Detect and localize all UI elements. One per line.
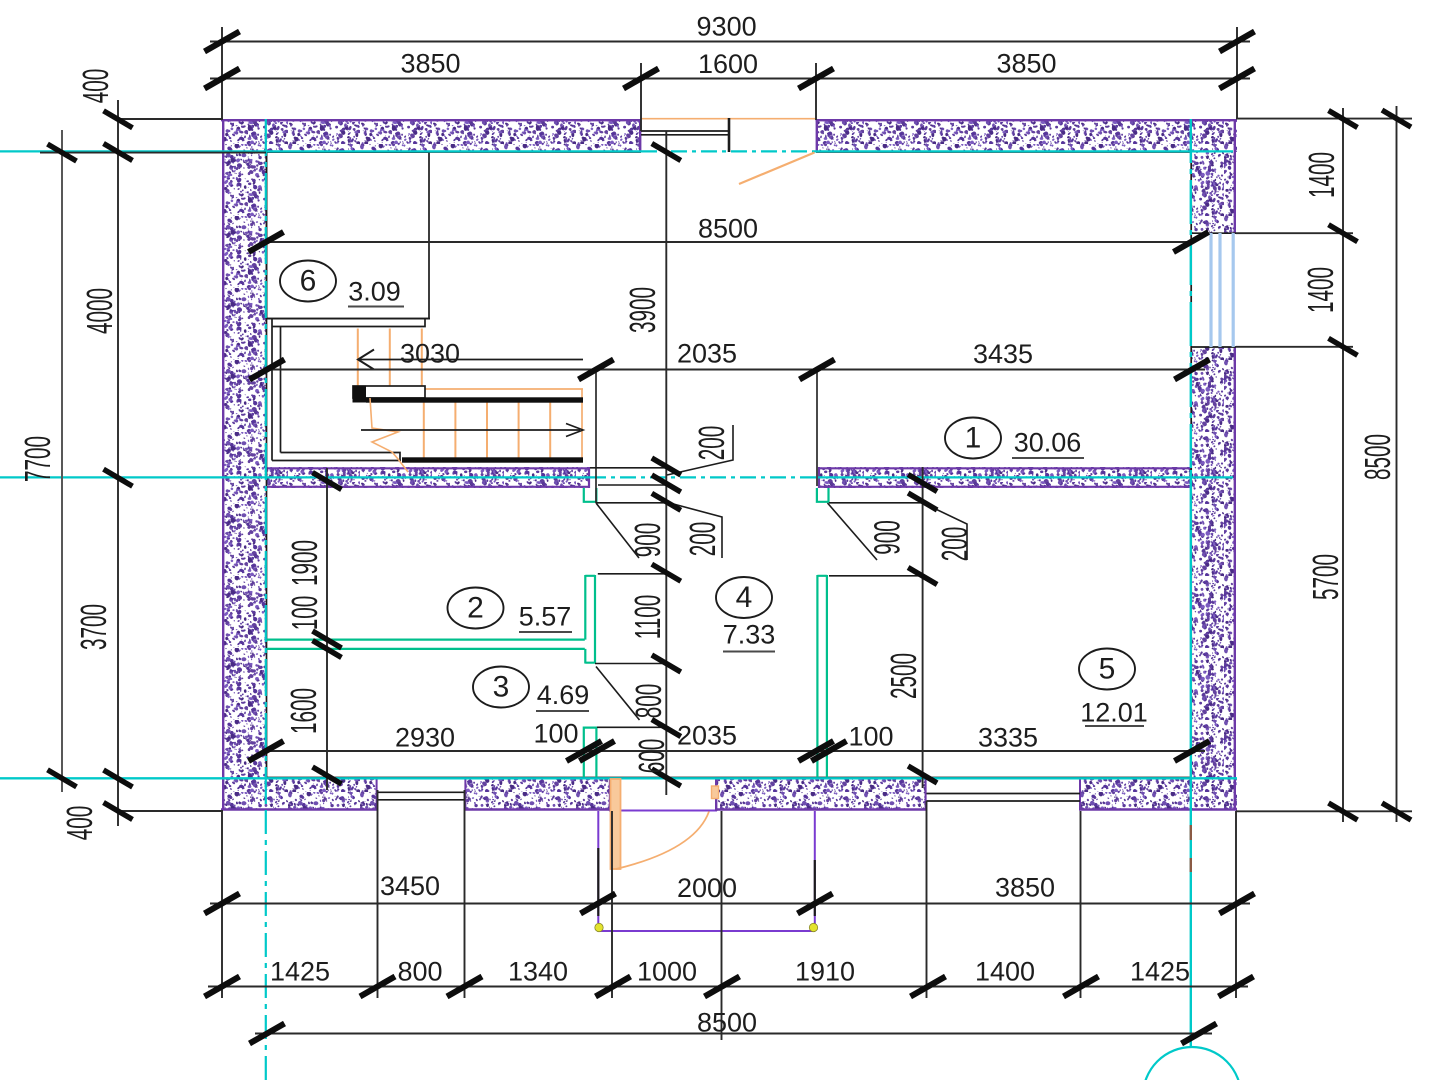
tick 267,1033.5	[250, 1024, 285, 1044]
tick 266,751	[249, 741, 284, 761]
stair left rail outer	[271, 319, 273, 461]
dim line 3900 chain vertical	[665, 131, 667, 795]
dim line 3030-2035-3435	[267, 369, 1205, 371]
stair newel post	[353, 386, 367, 403]
stair walk arrow head	[566, 424, 583, 437]
stair upper tread 3	[421, 329, 423, 398]
interior wall right bottom edge	[818, 486, 1191, 488]
tick v 666.3,466.5	[652, 458, 681, 475]
tick v 1343,346.8	[1329, 338, 1358, 355]
room 2 area underline	[519, 631, 572, 633]
svg-text:6: 6	[300, 265, 317, 298]
stair upper tread 1	[357, 329, 359, 398]
top door jamb cap left	[639, 119, 641, 152]
tick v 118,811	[104, 803, 133, 820]
axis A horizontal top solid left	[0, 150, 641, 152]
stair bottom rail outer	[272, 460, 401, 462]
svg-text:3850: 3850	[995, 873, 1055, 903]
tick 816,78.5	[799, 69, 834, 89]
extension porch right dark	[814, 860, 816, 916]
door annotation line jamb right	[829, 502, 923, 504]
svg-text:2500: 2500	[884, 653, 924, 699]
stair up arrow head	[358, 350, 374, 370]
tick v 666.3,728	[652, 720, 681, 737]
partition room2/3 divider top line	[267, 638, 585, 640]
bottom window2 glazing 1	[927, 793, 1081, 795]
right window glazing 1	[1209, 233, 1212, 347]
tick 377.5,986.5	[360, 977, 395, 997]
tick 1192,369.5	[1175, 360, 1210, 380]
tick v 118,778.5	[104, 770, 133, 787]
tick v 1396.5,811.5	[1382, 803, 1411, 820]
svg-text:3: 3	[493, 671, 510, 704]
tick v 118,152	[104, 144, 133, 161]
svg-text:4.69: 4.69	[537, 680, 590, 710]
dim line 1900-100-1600 vertical	[326, 468, 328, 790]
tick 222,903.5	[205, 894, 240, 914]
extension window2 right	[1080, 811, 1082, 998]
room 6 ellipse	[280, 261, 336, 302]
extension porch left dark	[597, 848, 599, 916]
svg-text:3.09: 3.09	[348, 277, 401, 307]
svg-text:800: 800	[397, 957, 442, 987]
tick v 1343,811.5	[1329, 803, 1358, 820]
extension 1100 line	[595, 663, 666, 665]
extension window2 left	[926, 801, 928, 998]
svg-text:1: 1	[965, 422, 982, 455]
tick 1192,751	[1175, 741, 1210, 761]
tick 1081,986.5	[1064, 977, 1099, 997]
outer wall top-right segment	[816, 119, 1237, 152]
tick v 666.3,663.5	[652, 655, 681, 672]
svg-text:1000: 1000	[637, 957, 697, 987]
dim line 400-4000-3700-400 vertical	[117, 100, 119, 826]
tick 222,986.5	[205, 977, 240, 997]
svg-text:4000: 4000	[80, 288, 120, 334]
wall outer edge bottom seg2	[465, 808, 610, 810]
svg-text:900: 900	[868, 520, 908, 555]
stair walk line	[361, 429, 580, 431]
connector right window bottom	[1236, 346, 1353, 348]
connector right window top	[1236, 232, 1353, 234]
svg-text:200: 200	[935, 527, 975, 562]
extension top-right corner	[1236, 27, 1238, 119]
tick v 666.3,572.7	[652, 564, 681, 581]
stair lower tread 5	[549, 403, 551, 458]
stair thick edge upper	[366, 397, 583, 402]
extension window1 right	[464, 790, 466, 998]
svg-text:8500: 8500	[698, 214, 758, 244]
wall outer edge bottom seg4	[1079, 808, 1237, 810]
tick 464.5,986.5	[447, 977, 482, 997]
outer wall bottom segment 4	[1079, 777, 1237, 810]
wall outer edge top left part	[221, 119, 642, 121]
top door leaf	[739, 153, 815, 185]
tick 267,369.5	[250, 360, 285, 380]
room 6 enclosure	[267, 152, 430, 319]
tick 816,751	[799, 741, 834, 761]
room 3 ellipse	[473, 667, 529, 708]
svg-text:3335: 3335	[978, 723, 1038, 753]
svg-text:2035: 2035	[677, 339, 737, 369]
svg-text:5: 5	[1099, 653, 1116, 686]
leader 200 lower-left	[666, 502, 722, 558]
dim line 8500 right vertical	[1396, 106, 1398, 822]
door leaf room3	[596, 667, 640, 721]
door leaf room5	[828, 503, 878, 560]
stair top rail inner	[272, 319, 425, 327]
stair lower tread 4	[518, 403, 520, 458]
entrance jamb cap right	[715, 777, 717, 811]
interior wall left bottom edge	[267, 486, 590, 488]
room 1 ellipse	[945, 418, 1001, 459]
dim line 8500 interior	[266, 241, 1191, 243]
top window mullion post	[728, 118, 731, 152]
dim line 3450-2000-3850	[210, 903, 1250, 905]
extension 800 line	[597, 726, 666, 728]
svg-text:5700: 5700	[1306, 554, 1346, 600]
svg-text:30.06: 30.06	[1014, 428, 1082, 458]
svg-text:100: 100	[533, 719, 578, 749]
room 4 ellipse	[716, 577, 772, 618]
tick v 327,481	[313, 473, 342, 490]
svg-text:200: 200	[683, 522, 723, 557]
svg-text:1400: 1400	[1301, 267, 1341, 313]
svg-text:2000: 2000	[677, 873, 737, 903]
axis 2 hidden dash 1	[1190, 825, 1192, 840]
inner face right wall	[1190, 152, 1192, 778]
svg-text:8500: 8500	[1358, 434, 1398, 480]
stair upper tread 2	[389, 329, 391, 398]
top window glazing line 1	[641, 130, 730, 132]
svg-text:3850: 3850	[400, 49, 460, 79]
leader 200 right	[923, 503, 967, 560]
extension top door left	[640, 63, 642, 131]
door annotation line wall bottom left	[598, 484, 666, 486]
tick v 62,152.6	[48, 144, 77, 161]
wall outer edge left	[222, 119, 224, 810]
dim line 2500 vertical	[922, 467, 924, 788]
tick 222,41.5	[205, 32, 240, 52]
stair lower tread 1	[423, 403, 425, 458]
axis C horizontal bottom	[0, 777, 1237, 779]
tick v 1343,119	[1329, 111, 1358, 128]
room 3 area underline	[536, 710, 589, 712]
extension room1 left	[595, 370, 597, 504]
tick 598,903.5	[581, 894, 616, 914]
inner face bottom wall	[267, 777, 1192, 779]
dim line 2930-2035-3335	[266, 750, 1205, 752]
tick v 666.3,501.8	[652, 493, 681, 510]
svg-text:3030: 3030	[400, 339, 460, 369]
tick 641,78.5	[624, 69, 659, 89]
room 4 area underline	[723, 651, 775, 653]
stair left rail inner	[280, 327, 282, 453]
tick 817,369.5	[800, 360, 835, 380]
wall outer edge bottom seg3	[717, 808, 927, 810]
svg-text:3700: 3700	[74, 604, 114, 650]
tick 222,78.5	[205, 69, 240, 89]
top door jamb cap right	[816, 119, 818, 152]
stair break line	[370, 398, 408, 472]
outer wall bottom segment 3	[717, 777, 927, 810]
stair thick edge lower	[402, 457, 583, 462]
svg-text:1400: 1400	[975, 957, 1035, 987]
room 1 area underline	[1012, 457, 1084, 459]
tick 584,751	[567, 741, 602, 761]
tick v 922.6,501.5	[908, 493, 937, 510]
svg-text:900: 900	[628, 523, 668, 558]
bottom window2 glazing 2	[927, 800, 1081, 802]
axis A horizontal top solid right	[816, 150, 1233, 152]
axis 2 vertical right lower	[1190, 470, 1192, 1046]
svg-text:600: 600	[632, 739, 672, 774]
dim line bottom chain	[208, 986, 1248, 988]
porch outline left	[597, 811, 599, 923]
porch outline bottom	[599, 930, 815, 932]
svg-text:3850: 3850	[996, 49, 1056, 79]
dim line 1400-1400-5700 vertical	[1342, 108, 1344, 822]
svg-text:200: 200	[692, 426, 732, 461]
extension bottom-right corner	[1235, 811, 1237, 998]
door leaf room2	[596, 503, 639, 558]
interior bearing wall right segment	[818, 467, 1191, 488]
tick v 666.3,483.5	[652, 475, 681, 492]
stair flight border right	[581, 389, 583, 462]
interior bearing wall left segment	[267, 467, 590, 488]
partition right vertical segment	[817, 575, 827, 777]
interior wall right end cap	[818, 467, 820, 488]
wall outer edge right above window	[1234, 119, 1236, 233]
tick 597,751	[580, 741, 615, 761]
tick 266,242	[249, 232, 284, 252]
room 5 ellipse	[1079, 649, 1135, 690]
partition left vertical segment	[585, 575, 595, 664]
door annotation line opening end left	[598, 573, 666, 575]
axis 1 vertical left	[265, 119, 267, 810]
inner face top wall left part	[267, 151, 642, 153]
stair landing plate	[353, 386, 425, 398]
axis B horizontal middle dashed	[590, 476, 818, 478]
outer wall bottom segment 1	[222, 777, 378, 810]
svg-text:1900: 1900	[285, 540, 325, 586]
svg-text:3450: 3450	[380, 871, 440, 901]
porch corner dot left	[595, 923, 603, 931]
tick v 1396.5,118.6	[1382, 110, 1411, 127]
stair flight border top	[425, 388, 583, 390]
extension window1 left	[377, 790, 379, 998]
tick 829,751	[812, 741, 847, 761]
svg-text:7700: 7700	[18, 436, 58, 482]
dim line 8500 bottom	[255, 1033, 1212, 1035]
entrance jamb cap left	[609, 777, 611, 811]
connector axis top-left	[40, 152, 266, 154]
tick 1199,1033.5	[1182, 1024, 1217, 1044]
interior wall left top edge	[267, 467, 590, 469]
stair top rail outer	[267, 318, 431, 320]
connector right bottom	[1236, 810, 1412, 812]
axis 1 vertical left below building	[265, 810, 267, 1080]
svg-text:100: 100	[848, 722, 893, 752]
svg-text:8500: 8500	[697, 1008, 757, 1038]
svg-text:1340: 1340	[508, 957, 568, 987]
connector 400 top	[118, 118, 223, 120]
porch outline right	[814, 811, 816, 925]
extension bottom-left corner	[221, 811, 223, 998]
axis A horizontal top dashed	[641, 150, 816, 152]
right window glazing 2	[1218, 233, 1221, 347]
extension top door right	[815, 63, 817, 120]
top door lintel line	[641, 118, 816, 120]
stair lower tread 2	[454, 403, 456, 458]
partition room2/3 divider bottom line	[267, 648, 585, 650]
outer wall right upper segment	[1191, 119, 1236, 233]
door annotation line jamb left	[596, 502, 670, 504]
svg-text:1600: 1600	[698, 49, 758, 79]
stair upper walk line	[358, 359, 583, 361]
door annotation line wall top left	[590, 467, 666, 469]
leader 200 upper-left	[667, 425, 733, 475]
room 6 area underline	[348, 306, 404, 308]
bottom window1 glazing 2	[378, 799, 465, 801]
inner face left wall	[266, 152, 268, 778]
wall outer edge right below window	[1234, 347, 1236, 810]
stair bottom rail inner	[281, 453, 401, 461]
dim line 7700 vertical	[61, 130, 63, 792]
extension entrance left	[611, 811, 613, 998]
svg-text:1425: 1425	[270, 957, 330, 987]
svg-text:3900: 3900	[623, 287, 663, 333]
tick 1237,41.5	[1220, 32, 1255, 52]
entrance door frame right	[712, 786, 719, 799]
svg-text:2035: 2035	[677, 721, 737, 751]
connector right top	[1236, 118, 1412, 120]
svg-text:100: 100	[285, 596, 325, 631]
tick 722,986.5	[705, 977, 740, 997]
tick 1237,78.5	[1220, 69, 1255, 89]
interior wall right top edge	[818, 467, 1191, 469]
axis 2 bubble circle	[1143, 1047, 1241, 1080]
tick v 327,775.5	[313, 767, 342, 784]
partition right top jamb	[817, 488, 829, 502]
tick v 666.3,152	[652, 144, 681, 161]
extension entrance right	[721, 811, 723, 1040]
tick 1191,242	[1174, 232, 1209, 252]
tick 596,369.5	[579, 360, 614, 380]
svg-text:800: 800	[629, 684, 669, 719]
entrance door swing arc	[616, 812, 709, 870]
tick v 118,477.7	[104, 469, 133, 486]
svg-text:400: 400	[76, 69, 116, 104]
svg-text:1400: 1400	[1302, 152, 1342, 198]
svg-text:1910: 1910	[795, 957, 855, 987]
bottom window1 glazing 1	[378, 791, 465, 793]
door annotation line opening end right	[829, 575, 923, 577]
inner face top wall right part	[816, 151, 1192, 153]
outer wall top-left segment	[222, 119, 641, 152]
right window jamb top	[1191, 232, 1236, 234]
svg-text:12.01: 12.01	[1080, 698, 1148, 728]
wall outer edge bottom seg1	[221, 808, 378, 810]
tick v 922.6,774.5	[908, 766, 937, 783]
porch corner dot right	[809, 923, 817, 931]
entrance door leaf	[611, 779, 621, 869]
extension top-left corner	[221, 27, 223, 119]
tick v 1343,233.2	[1329, 225, 1358, 242]
dim line 9300	[210, 41, 1250, 43]
partition left bottom jamb	[584, 728, 597, 777]
svg-text:1600: 1600	[284, 688, 324, 734]
bottom window2 jamb cap left	[925, 777, 927, 810]
tick v 327,649	[313, 641, 342, 658]
stair lower tread 3	[486, 403, 488, 458]
svg-text:9300: 9300	[697, 12, 757, 42]
partition left top jamb	[584, 488, 597, 502]
tick 815,903.5	[798, 894, 833, 914]
axis 2 vertical right upper	[1190, 119, 1192, 470]
axis B horizontal middle solid left	[0, 476, 590, 478]
extension room1 right	[816, 370, 818, 487]
bottom window1 jamb cap left	[376, 777, 378, 810]
outer wall bottom segment 2	[465, 777, 610, 810]
tick v 62,778.3	[48, 770, 77, 787]
svg-text:2: 2	[467, 592, 484, 625]
svg-text:7.33: 7.33	[723, 620, 776, 650]
room 5 area underline	[1085, 725, 1144, 727]
entrance threshold	[609, 810, 717, 812]
axis B horizontal middle solid right	[818, 476, 1233, 478]
connector 400 bottom	[118, 810, 223, 812]
svg-text:5.57: 5.57	[519, 602, 572, 632]
right window outer line	[1232, 233, 1235, 347]
tick v 327,639.5	[313, 631, 342, 648]
tick v 666.3,777.5	[652, 769, 681, 786]
svg-text:4: 4	[736, 581, 753, 614]
svg-text:1425: 1425	[1130, 957, 1190, 987]
svg-text:2930: 2930	[395, 723, 455, 753]
bottom window2 jamb cap right	[1079, 777, 1081, 810]
axis 2 hidden dash 2	[1190, 858, 1192, 872]
tick 1236,986.5	[1219, 977, 1254, 997]
outer wall right lower segment	[1191, 347, 1236, 810]
tick 613,986.5	[596, 977, 631, 997]
dim line 3850-1600-3850	[210, 78, 1250, 80]
wall outer edge top right part	[816, 119, 1238, 121]
tick v 922.6,576	[908, 568, 937, 585]
top window glazing line 2	[641, 134, 730, 136]
outer wall left	[222, 119, 267, 810]
tick v 922.6,483	[908, 475, 937, 492]
room 2 ellipse	[448, 588, 504, 629]
tick 1237,903.5	[1220, 894, 1255, 914]
bottom window1 jamb cap right	[464, 777, 466, 810]
tick 928,986.5	[911, 977, 946, 997]
right window jamb bottom	[1191, 346, 1236, 348]
interior wall left end cap	[588, 467, 590, 488]
svg-text:1100: 1100	[628, 595, 668, 640]
tick v 118,119.3	[104, 111, 133, 128]
svg-text:400: 400	[60, 806, 100, 841]
svg-text:3435: 3435	[973, 339, 1033, 369]
